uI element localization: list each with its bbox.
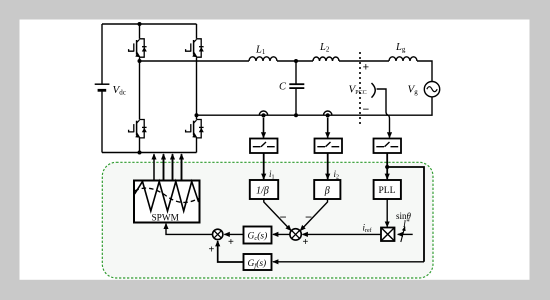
wire leg2: [196, 24, 198, 153]
wire 1/b to summing node: [264, 199, 291, 231]
green dashed control-region box: [102, 162, 433, 278]
block Gf(s): [244, 254, 272, 270]
svg-text:PLL: PLL: [379, 186, 396, 196]
transistor Q1 (top left IGBT): [129, 39, 147, 57]
block SPWM: [134, 181, 200, 223]
capacitor C: [295, 61, 297, 84]
carrier wave: [135, 182, 199, 212]
wire bottom rail: [102, 152, 197, 154]
svg-text:SPWM: SPWM: [152, 213, 179, 223]
source Vg: [424, 82, 439, 97]
wire Gc to left summing node: [224, 233, 243, 235]
summing node left: [213, 229, 223, 239]
wire b to summing node: [300, 199, 327, 231]
wire feedforward into Gf: [273, 261, 424, 263]
wire tap i1 to sensor S1: [263, 118, 265, 138]
wire tap i2 to sensor S2: [327, 118, 329, 138]
inductor Lg coil: [389, 57, 417, 61]
block PLL: [374, 180, 401, 199]
svg-text:+: +: [363, 62, 369, 74]
svg-text:+: +: [209, 245, 215, 256]
arrow I* annotation: [401, 227, 405, 242]
inductor L2 coil: [313, 57, 339, 61]
summing node mid: [290, 229, 301, 240]
wire leg1: [139, 24, 141, 153]
battery Vdc plates: [95, 83, 110, 85]
node phase B / C: [294, 113, 298, 117]
PCC dotted boundary line: [359, 52, 361, 125]
wire Vdc left leg lower: [101, 91, 103, 153]
inductor L1 coil: [249, 57, 277, 61]
svg-text:+: +: [228, 237, 234, 248]
wire Gf to left summing node: [218, 241, 244, 262]
svg-text:Gc(s): Gc(s): [248, 231, 268, 243]
sensor S3: [374, 139, 402, 154]
wire multiplier to summing node (i_ref): [303, 233, 382, 235]
wire I* input: [398, 233, 413, 235]
wire left summing node to SPWM: [166, 224, 212, 235]
node S3 feedback tap: [385, 165, 389, 169]
wire gate drive arrow 4: [181, 154, 183, 180]
wire gate drive arrow 2: [163, 154, 165, 180]
node phase A leg1: [138, 59, 142, 63]
svg-text:1/β: 1/β: [256, 186, 269, 197]
svg-text:Gf(s): Gf(s): [248, 258, 267, 270]
svg-text:−: −: [363, 104, 370, 116]
multiplier box: [381, 228, 395, 242]
node bottom rail leg1: [138, 151, 142, 155]
transistor Q3 (bottom left IGBT): [129, 120, 147, 138]
svg-text:+: +: [303, 237, 309, 248]
wire PLL to multiplier: [386, 199, 388, 227]
wire Vdc left leg upper: [101, 24, 103, 84]
block 1/beta: [250, 180, 278, 199]
wire feedforward right path: [387, 167, 424, 262]
transistor Q4 (bottom right IGBT): [186, 120, 204, 138]
wire S2 to b block: [327, 153, 329, 179]
block beta: [314, 180, 340, 199]
svg-text:−: −: [305, 210, 312, 224]
sensor S1: [250, 139, 278, 154]
wire S1 to 1/b block: [263, 153, 265, 179]
voltage probe curve: [372, 83, 376, 98]
wire gate drive arrow 3: [172, 154, 174, 180]
transistor Q2 (top right IGBT): [186, 39, 204, 57]
svg-text:C: C: [279, 82, 287, 93]
wire summing node to Gc: [273, 233, 290, 235]
modulating sine (dashed): [135, 188, 199, 202]
svg-text:β: β: [324, 186, 330, 197]
current tap i1 (probe hump + dot): [259, 111, 267, 115]
wire crossover hop: [386, 112, 390, 119]
wire gate drive arrow 1: [153, 154, 155, 180]
node top rail / leg1: [138, 22, 142, 26]
wire phase B rail: [197, 97, 433, 115]
wire hop to sensor S3 (arrow): [389, 119, 391, 138]
wire phase A rail: [140, 61, 433, 82]
node phase A / C: [294, 59, 298, 63]
wire top rail: [102, 23, 197, 25]
wire S3 to PLL: [386, 153, 388, 179]
node phase B leg2: [195, 113, 199, 117]
sensor S2: [315, 139, 343, 154]
block Gc(s): [244, 227, 272, 244]
svg-text:−: −: [280, 210, 287, 224]
current tap i2 (probe hump + dot): [324, 111, 332, 115]
wire probe to sensor S3: [377, 89, 386, 112]
